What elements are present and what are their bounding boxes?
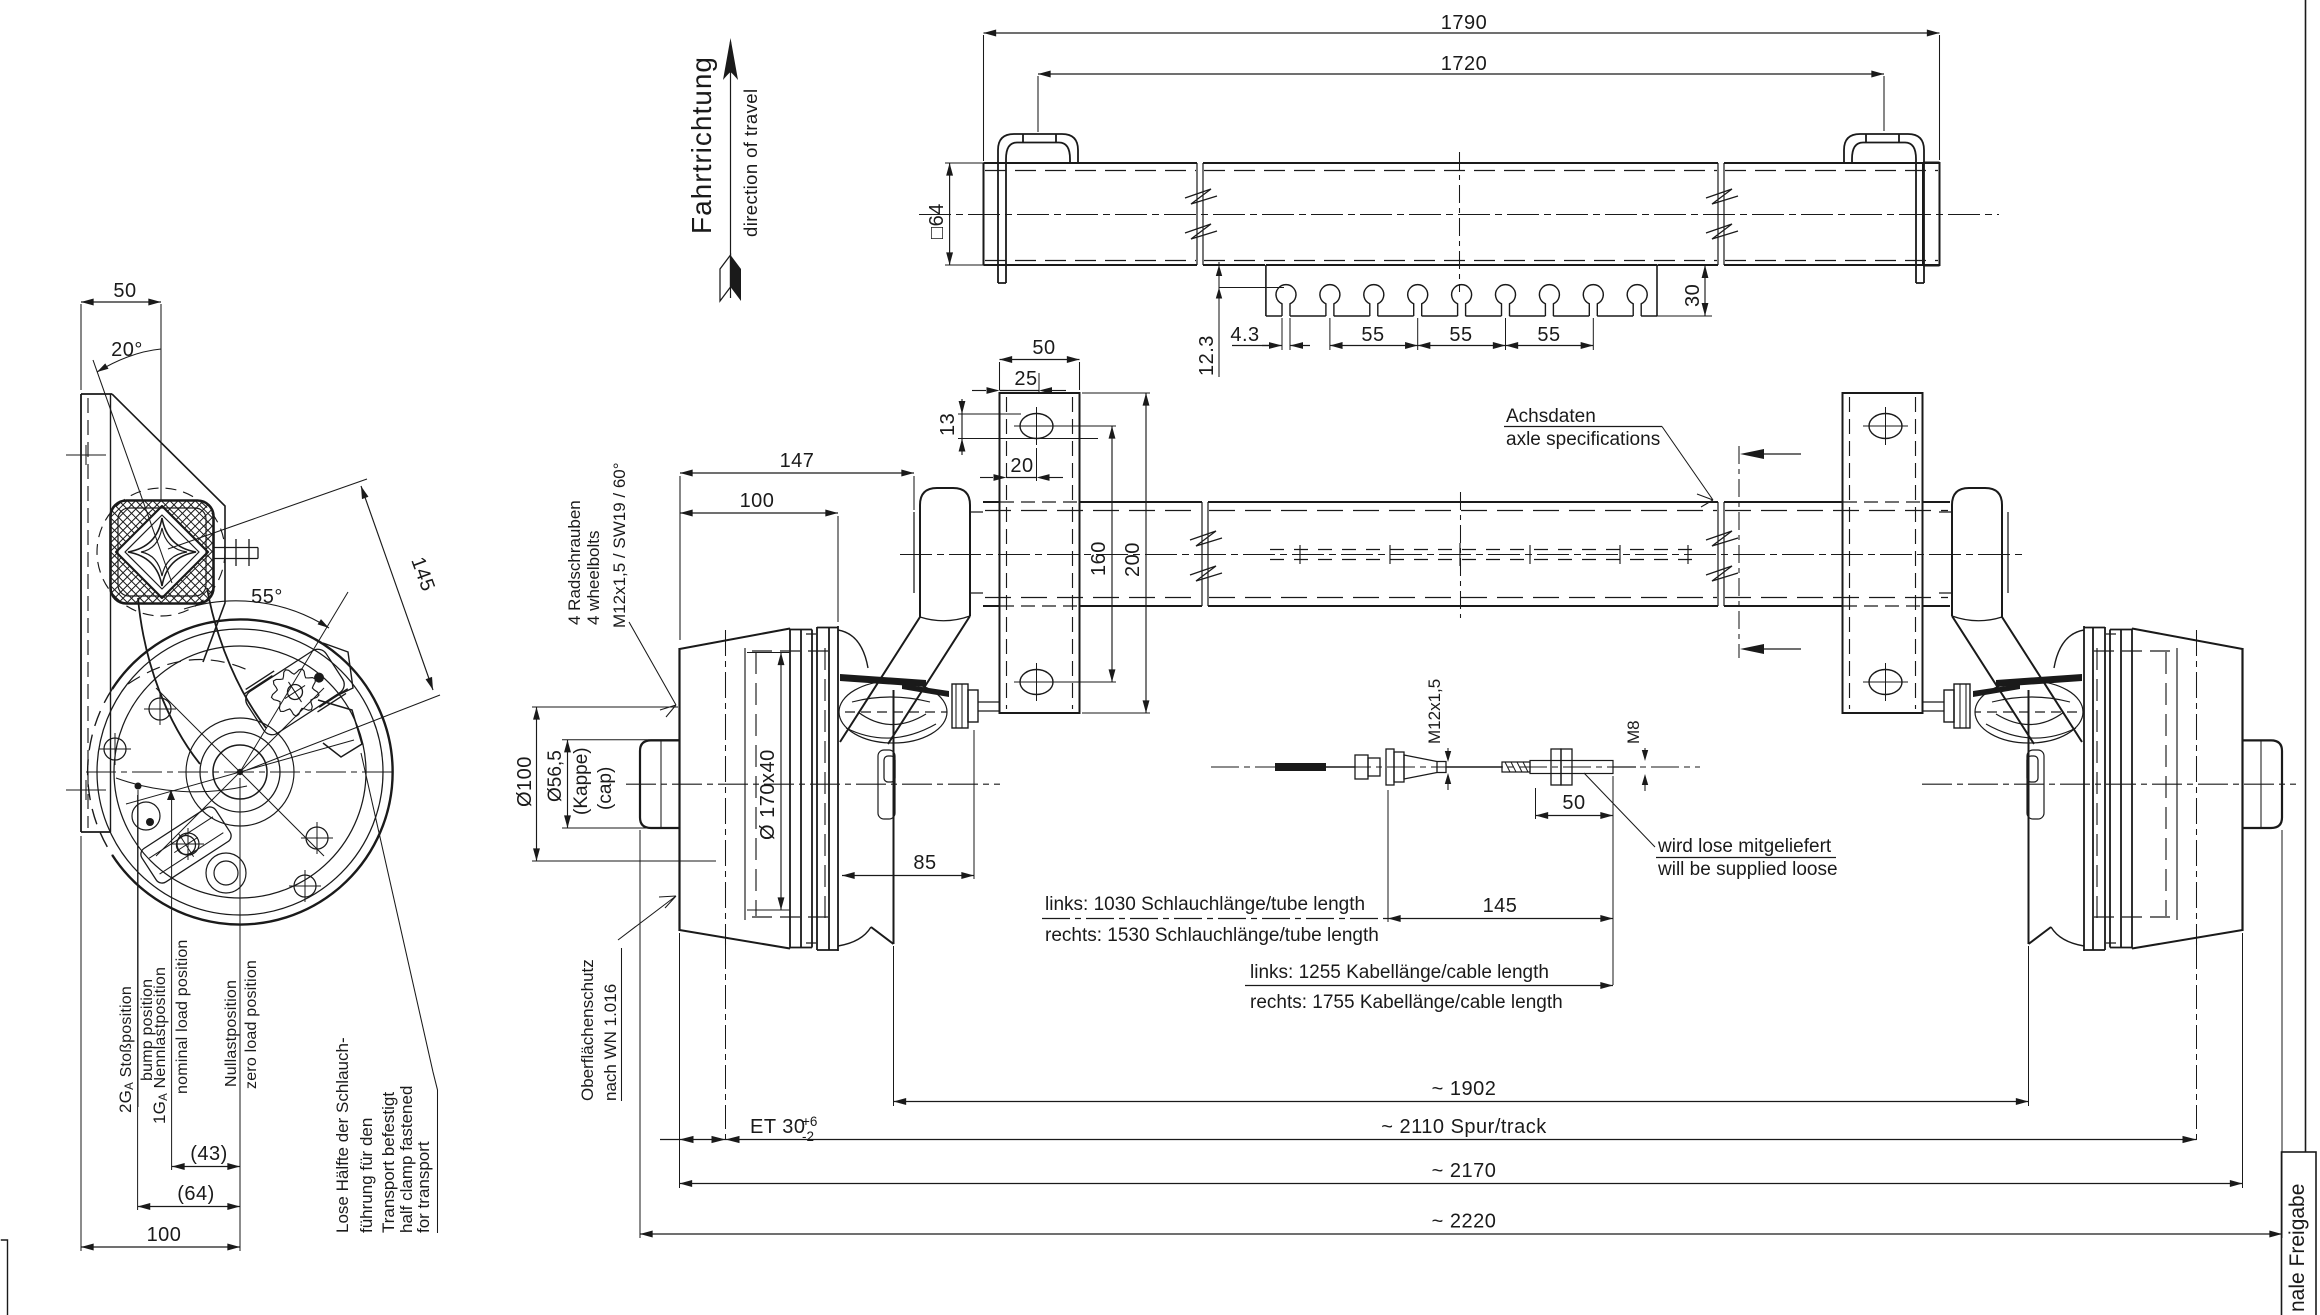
svg-text:+6: +6 <box>802 1114 817 1129</box>
travel arrow shaft <box>730 42 732 298</box>
hub cap <box>640 740 680 828</box>
axle tube centerline <box>900 554 2022 556</box>
svg-text:(cap): (cap) <box>595 767 616 810</box>
svg-text:55: 55 <box>1361 324 1384 346</box>
svg-text:55: 55 <box>1449 324 1472 346</box>
svg-text:25: 25 <box>1014 368 1037 390</box>
svg-text:ET 30: ET 30 <box>750 1116 806 1138</box>
beam right end cap <box>1923 162 1940 266</box>
dimension 160 <box>1056 426 1116 682</box>
svg-text:2GA Stoßposition: 2GA Stoßposition <box>116 986 136 1113</box>
right hub and brake drum group (mirrored) <box>1922 488 2282 951</box>
svg-text:zero load position: zero load position <box>243 960 260 1089</box>
dimension ~2220 <box>640 1211 2282 1235</box>
travel arrow fletching <box>731 255 742 301</box>
load position mark 1G (tick) <box>167 790 175 800</box>
svg-text:145: 145 <box>1483 895 1518 917</box>
bolt tick lower <box>66 780 106 800</box>
drum inner hidden lines <box>744 648 746 920</box>
dimension 200 <box>1082 393 1150 713</box>
svg-text:55: 55 <box>1537 324 1560 346</box>
drum rear flange top corner <box>838 630 868 668</box>
20 deg arc <box>97 349 161 372</box>
cable washers <box>1386 749 1394 785</box>
svg-text:4.3: 4.3 <box>1230 324 1259 346</box>
dimension 145 cable <box>1388 790 1613 922</box>
svg-text:~ 2220: ~ 2220 <box>1432 1211 1497 1233</box>
damper diamond inner <box>125 515 199 589</box>
arm stub to tube <box>970 512 983 593</box>
svg-text:nach WN 1.016: nach WN 1.016 <box>601 984 620 1101</box>
hub seat arc <box>186 718 294 826</box>
svg-text:50: 50 <box>1562 792 1585 814</box>
dimension ~1902 <box>894 1078 2029 1102</box>
svg-text:links: 1255 Kabellänge/cable l: links: 1255 Kabellänge/cable length <box>1250 962 1549 983</box>
svg-text:(64): (64) <box>177 1183 215 1205</box>
damper diamond outer <box>116 506 208 598</box>
svg-text:Transport befestigt: Transport befestigt <box>379 1092 398 1233</box>
cable nuts <box>1551 749 1561 785</box>
svg-text:Fahrtrichtung: Fahrtrichtung <box>686 56 717 234</box>
svg-text:Achsdaten: Achsdaten <box>1506 406 1596 427</box>
dimension square 64 beam height <box>926 163 984 265</box>
svg-text:führung für den: führung für den <box>357 1118 376 1233</box>
wheel mounting face <box>678 648 680 931</box>
cable rod shaded <box>1275 763 1326 771</box>
svg-text:nominal load position: nominal load position <box>174 939 191 1094</box>
svg-text:for transport: for transport <box>414 1141 433 1233</box>
backplate slot <box>884 756 895 782</box>
lower tab <box>878 750 895 819</box>
leader zero load / hub centre <box>239 778 241 1251</box>
gusset diagonal <box>112 394 225 662</box>
damper phantom circle (dashed) <box>97 488 225 616</box>
damper pin <box>214 539 259 566</box>
trailing arm edge left <box>138 598 200 764</box>
svg-text:50: 50 <box>113 280 136 302</box>
cable stub <box>978 702 1000 711</box>
wheelbolt leader <box>629 622 676 717</box>
svg-text:55°: 55° <box>251 586 283 608</box>
title block box (interne Freigabe) <box>2282 1152 2317 1315</box>
cable end rod <box>1530 761 1613 774</box>
break mark right <box>1706 163 1738 265</box>
axle tube outline <box>900 446 2022 658</box>
svg-text:4 wheelbolts: 4 wheelbolts <box>584 530 603 625</box>
backplate outer circle hidden part <box>88 689 113 855</box>
drum rim ring 1 <box>790 629 812 949</box>
pivot pin circles <box>206 853 246 893</box>
svg-text:30: 30 <box>1682 284 1704 307</box>
damper star profile <box>128 518 196 586</box>
leader wird lose <box>1584 773 1655 847</box>
Achsdaten leader <box>1662 427 1713 508</box>
datum arrow lower <box>1740 644 1764 654</box>
svg-text:50: 50 <box>1032 337 1055 359</box>
torsion arm capsule <box>920 488 970 617</box>
svg-text:rechts: 1530 Schlauchlänge/tub: rechts: 1530 Schlauchlänge/tube length <box>1045 925 1379 946</box>
load position mark 2G (dot) <box>135 783 142 790</box>
bracket slot lower <box>1020 670 1053 695</box>
beam hidden edge top (dashed) <box>985 170 1938 172</box>
svg-text:~ 2110 Spur/track: ~ 2110 Spur/track <box>1381 1116 1547 1138</box>
svg-text:1790: 1790 <box>1441 12 1488 34</box>
svg-text:147: 147 <box>780 450 815 472</box>
svg-text:20°: 20° <box>111 339 143 361</box>
lower brake shoe cluster <box>138 804 234 885</box>
bracket plate left face <box>81 394 112 832</box>
svg-text:links: 1030 Schlauchlänge/tube: links: 1030 Schlauchlänge/tube length <box>1045 894 1365 915</box>
svg-text:M12x1,5 / SW19 / 60°: M12x1,5 / SW19 / 60° <box>610 462 629 628</box>
55 deg arc <box>184 601 329 628</box>
dimension 1720 <box>1038 53 1884 132</box>
svg-text:Nullastposition: Nullastposition <box>223 980 240 1087</box>
center crosshair horizontal <box>86 771 394 773</box>
U-bolt clamp left <box>998 134 1078 283</box>
center crosshair diagonals <box>126 688 354 856</box>
svg-text:□64: □64 <box>926 203 948 239</box>
trailing arm edge right <box>207 588 266 728</box>
strip bottom edge with slot gaps <box>1266 315 1657 317</box>
dimension 55 x3 hole pitch <box>1330 318 1593 350</box>
dimension 100 <box>680 490 838 622</box>
svg-text:will be supplied loose: will be supplied loose <box>1657 859 1838 880</box>
clamp spring clip <box>323 643 353 698</box>
beam tube bottom edge <box>984 264 1940 266</box>
dimension 1790 <box>984 12 1940 161</box>
dimension 147 <box>680 450 914 640</box>
dimension (64) <box>138 1206 240 1208</box>
brake adjuster cluster <box>240 642 350 742</box>
svg-text:13: 13 <box>937 413 959 436</box>
right spring bracket <box>1843 393 1923 713</box>
hose guide half clamp <box>318 700 362 757</box>
surface protection leader <box>618 896 676 940</box>
beam tube top edge <box>984 162 1940 164</box>
hub bore circle <box>213 745 267 799</box>
beam symmetry axis mark <box>1459 152 1461 292</box>
svg-text:100: 100 <box>740 490 775 512</box>
tube end face behind arm <box>913 512 915 593</box>
leader 2G <box>137 790 139 1107</box>
dimension (43) <box>172 1166 240 1168</box>
dimension 30 strip height <box>1657 265 1712 316</box>
dimension 13 slot height <box>937 399 1098 455</box>
backplate inner rim circle <box>97 629 383 915</box>
cable cone <box>1404 755 1446 779</box>
svg-text:1720: 1720 <box>1441 53 1488 75</box>
cable threaded section <box>1502 762 1530 772</box>
dimension 85 <box>842 730 974 879</box>
page frame bottom-left corner <box>1 1240 8 1315</box>
svg-text:160: 160 <box>1088 541 1110 576</box>
dimension 25 <box>972 368 1066 394</box>
rim groove <box>806 634 816 943</box>
dimension 4.3 slot width <box>1230 318 1310 350</box>
svg-text:M12x1,5: M12x1,5 <box>1425 679 1444 744</box>
bowden bellows dark bands <box>840 674 926 687</box>
clamp leader to text <box>361 753 438 1233</box>
svg-text:85: 85 <box>913 852 936 874</box>
drum centreline left <box>626 783 1000 785</box>
arm phantom arc (dashed) <box>128 660 252 685</box>
keyhole slots in strip <box>1276 285 1647 316</box>
dimension 50 cable end <box>1536 776 1614 985</box>
bracket slot upper <box>1020 414 1053 439</box>
cable centreline <box>1211 766 1700 768</box>
svg-text:~ 1902: ~ 1902 <box>1432 1078 1497 1100</box>
svg-text:20: 20 <box>1010 455 1033 477</box>
svg-text:rechts: 1755 Kabellänge/cable: rechts: 1755 Kabellänge/cable length <box>1250 992 1563 1013</box>
dimension 12.3 strip offset <box>1196 262 1284 377</box>
dimension 50 bracket width <box>1000 337 1080 390</box>
tube break mark right <box>1706 502 1738 606</box>
svg-text:4 Radschrauben: 4 Radschrauben <box>565 500 584 625</box>
dimension ET 30 and ~2110 Spur/track <box>660 1114 2197 1144</box>
dimension 145 damper to hub <box>168 479 440 770</box>
dimension Ø100 bolt circle <box>514 707 716 861</box>
leader bracket face <box>80 836 82 1251</box>
drum cone bottom <box>680 930 791 949</box>
extension lines to bottom dimensions <box>640 830 2282 1238</box>
perforated mounting strip <box>1266 265 1657 316</box>
bracket plate right face <box>110 394 112 832</box>
wheel centre plane <box>725 630 727 945</box>
bracket plate hidden line (dashed) <box>87 398 89 828</box>
left hub and brake drum group <box>640 488 1000 951</box>
svg-text:Oberflächenschutz: Oberflächenschutz <box>578 959 597 1101</box>
bolt tick upper <box>66 445 106 465</box>
tube break mark left <box>1190 502 1222 606</box>
leader 1G <box>171 800 173 1170</box>
svg-text:nale Freigabe: nale Freigabe <box>2286 1184 2309 1312</box>
svg-text:Ø56,5: Ø56,5 <box>545 750 566 802</box>
U-bolt clamp right <box>1844 134 1924 283</box>
dimension Ø56,5 cap <box>545 740 680 828</box>
loose brake cable assembly <box>1211 749 1700 785</box>
arm slant to drum <box>840 616 970 744</box>
bowden boot curves <box>839 681 947 743</box>
drum centreline right <box>1922 783 2296 785</box>
dimension 100 <box>81 1246 240 1248</box>
drum rim ring 2 <box>817 626 838 951</box>
hub center point <box>237 769 243 775</box>
travel arrow head <box>723 38 738 80</box>
cable nipple hex <box>952 684 978 728</box>
damper inner square <box>118 508 206 596</box>
svg-text:Lose Hälfte der Schlauch-: Lose Hälfte der Schlauch- <box>333 1037 352 1233</box>
backplate outer circle <box>112 619 392 924</box>
dimension 50 bracket offset <box>81 301 161 303</box>
svg-text:wird lose mitgeliefert: wird lose mitgeliefert <box>1657 836 1832 857</box>
section datum line <box>1738 446 1740 658</box>
svg-text:~ 2170: ~ 2170 <box>1432 1160 1497 1182</box>
dimension ~2170 <box>680 1160 2243 1184</box>
position arc through load marks <box>116 778 247 792</box>
svg-text:12.3: 12.3 <box>1196 335 1218 376</box>
svg-text:direction of travel: direction of travel <box>740 89 761 237</box>
shoe pivot circle <box>132 802 160 830</box>
svg-text:Ø100: Ø100 <box>514 756 536 807</box>
damper outer square <box>111 501 214 604</box>
svg-text:100: 100 <box>147 1224 182 1246</box>
20 deg slant line <box>93 360 172 583</box>
datum arrow upper <box>1740 449 1764 459</box>
leader 2G extension <box>137 795 139 1210</box>
backplate contour <box>114 646 366 898</box>
shoe pivot dot <box>146 818 154 826</box>
rubber spring damper: hatch pockets <box>111 501 214 604</box>
axle symmetry axis mark <box>1460 492 1462 618</box>
beam centerline <box>919 214 1999 216</box>
beam left end face <box>983 163 985 265</box>
drum rear flange bottom corner <box>838 927 871 946</box>
wheel bolt circles <box>99 693 333 902</box>
svg-text:200: 200 <box>1122 542 1144 577</box>
page frame right border <box>2305 0 2307 1152</box>
svg-text:(Kappe): (Kappe) <box>571 747 592 815</box>
hub cap face line <box>660 740 662 828</box>
hub boss circle <box>200 732 280 812</box>
svg-text:(43): (43) <box>190 1143 228 1165</box>
axle tube hidden edges (dashed) <box>985 511 1948 598</box>
drum cone top <box>680 629 791 650</box>
left spring bracket <box>1000 393 1080 713</box>
svg-text:axle specifications: axle specifications <box>1506 429 1660 450</box>
torsion bar splines <box>1270 550 1700 560</box>
brake backplate face <box>871 690 894 944</box>
vertical reference through damper <box>160 304 162 500</box>
break mark left <box>1185 163 1217 265</box>
cable connector blocks <box>1355 755 1368 779</box>
Ø170x40 dimension inside drum <box>747 653 790 911</box>
svg-text:Ø 170x40: Ø 170x40 <box>757 749 779 840</box>
beam hidden edge bottom (dashed) <box>985 260 1938 262</box>
svg-text:-2: -2 <box>802 1129 814 1144</box>
dimension 20 <box>980 448 1063 481</box>
svg-text:M8: M8 <box>1624 720 1643 744</box>
